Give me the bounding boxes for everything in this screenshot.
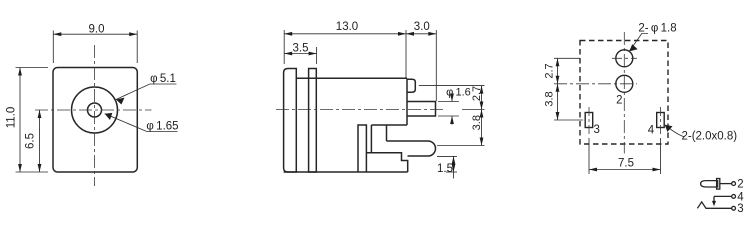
tab centre extension xyxy=(419,85,485,87)
svg-text:φ 1.6: φ 1.6 xyxy=(446,87,471,99)
dim 3.0 line xyxy=(406,33,436,35)
hole 1 (phi 1.8) xyxy=(616,50,633,67)
svg-text:2.7: 2.7 xyxy=(471,86,483,101)
leader 2-(2.0x0.8) xyxy=(665,125,684,137)
mounting washer bar xyxy=(309,69,317,173)
svg-text:1.5: 1.5 xyxy=(437,163,453,175)
leader 2-(2.0x0.8) arrowhead xyxy=(665,125,673,132)
dim 6.5 line xyxy=(39,110,41,172)
dim 9.0 line xyxy=(53,33,137,35)
dim 11.0 extension lines xyxy=(16,67,49,69)
wire to terminal 2 xyxy=(720,183,732,185)
dim 11.0 line xyxy=(19,68,21,173)
terminal 2 circle xyxy=(732,182,736,186)
body top edge xyxy=(296,77,407,79)
dim 3.5 extension right xyxy=(316,47,318,64)
contact bar xyxy=(717,179,720,190)
terminal 4 circle xyxy=(732,195,736,199)
side view centerline xyxy=(276,109,444,111)
switch spring contact xyxy=(697,202,710,208)
svg-text:4: 4 xyxy=(737,191,744,203)
slot 4 (2.0x0.8) xyxy=(657,113,665,128)
switch arrowhead xyxy=(712,201,716,206)
leader phi 1.65 arrowhead xyxy=(105,113,113,120)
wire to terminal 4 xyxy=(714,195,732,197)
top-right tab xyxy=(407,79,415,92)
center pin hole circle (phi 1.65) xyxy=(88,103,102,117)
dim 13.0 extension right xyxy=(405,30,407,78)
body outline hidden (dashed) xyxy=(580,41,668,145)
svg-text:13.0: 13.0 xyxy=(336,21,358,33)
terminal bend vertical xyxy=(386,125,388,141)
leader phi 5.1 arrowhead xyxy=(116,98,125,105)
dim 3.5 line xyxy=(284,53,316,55)
horizontal centerline xyxy=(35,109,152,111)
svg-text:9.0: 9.0 xyxy=(89,24,105,36)
lug bottom extension xyxy=(437,155,457,157)
svg-text:3.0: 3.0 xyxy=(414,21,430,33)
rounded terminal lug xyxy=(387,141,436,156)
slot 3 centerline xyxy=(588,107,590,135)
pin centre extension xyxy=(462,109,485,111)
vertical centerline xyxy=(94,45,96,186)
leader phi 5.1 xyxy=(116,84,177,100)
slot centre extension left xyxy=(554,119,583,121)
svg-text:3: 3 xyxy=(737,203,743,215)
svg-text:4: 4 xyxy=(648,125,655,137)
svg-text:3: 3 xyxy=(593,124,599,136)
hole1 centre extension xyxy=(554,57,580,59)
bottom seating line xyxy=(284,171,408,173)
switch drop wire xyxy=(713,196,715,202)
front leg bar xyxy=(358,125,366,172)
svg-text:3.8: 3.8 xyxy=(544,91,556,106)
barrel opening circle (phi 5.1) xyxy=(72,87,118,133)
dim 3.8 line xyxy=(481,110,483,146)
dim 13.0 line xyxy=(284,33,406,35)
hole 2 centerline xyxy=(554,83,637,85)
plug barrel xyxy=(701,181,718,187)
dim 2.7 (footprint) xyxy=(557,58,559,84)
dim 1.5 line xyxy=(453,156,455,165)
svg-text:7.5: 7.5 xyxy=(618,158,634,170)
front body outline xyxy=(53,68,137,173)
seating extension xyxy=(446,171,457,173)
dim 7.5 line xyxy=(589,169,661,171)
leader phi 1.65 xyxy=(105,114,178,132)
svg-text:2: 2 xyxy=(737,179,743,191)
dim 9.0 extension lines xyxy=(52,31,54,64)
leader 2-phi1.8 arrowhead xyxy=(629,44,638,51)
front flange plate xyxy=(284,69,297,173)
svg-text:2-(2.0x0.8): 2-(2.0x0.8) xyxy=(681,131,737,143)
body bottom notch edge xyxy=(371,124,407,126)
svg-text:6.5: 6.5 xyxy=(24,133,36,149)
svg-text:3.5: 3.5 xyxy=(293,43,309,55)
dim 13.0 extension left xyxy=(283,30,285,64)
dim 2.7 line xyxy=(481,86,483,110)
svg-text:3.8: 3.8 xyxy=(471,115,483,130)
footprint vertical centerline xyxy=(623,32,625,154)
leader 2-phi1.8 xyxy=(629,34,648,52)
svg-text:φ 1.65: φ 1.65 xyxy=(146,121,178,133)
svg-text:11.0: 11.0 xyxy=(5,107,17,129)
dim phi1.6 bottom arrow xyxy=(451,116,453,125)
wire to terminal 3 xyxy=(710,207,732,209)
dim 3.8 (footprint) xyxy=(557,84,559,120)
notch left vertical xyxy=(370,125,372,153)
terminal 3 circle xyxy=(732,206,736,210)
body right edge xyxy=(406,78,408,125)
hole 1 centerline tick xyxy=(612,57,637,59)
svg-text:2.7: 2.7 xyxy=(544,63,556,78)
hole 2 (phi 1.8) xyxy=(616,75,633,92)
dim phi1.6 top arrow xyxy=(451,94,453,102)
pin top extension xyxy=(438,101,459,103)
svg-text:φ 5.1: φ 5.1 xyxy=(150,73,176,85)
slot 4 centerline xyxy=(660,107,662,135)
svg-text:2: 2 xyxy=(616,95,622,107)
slot 3 (2.0x0.8) xyxy=(585,113,593,128)
dim 7.5 extensions xyxy=(588,138,590,174)
svg-text:2- φ 1.8: 2- φ 1.8 xyxy=(638,23,676,35)
center pin xyxy=(407,102,436,117)
lower terminal block xyxy=(366,153,407,172)
dim 3.0 extension right xyxy=(435,30,437,101)
lug centre extension xyxy=(437,145,485,147)
pin bottom extension xyxy=(438,115,459,117)
